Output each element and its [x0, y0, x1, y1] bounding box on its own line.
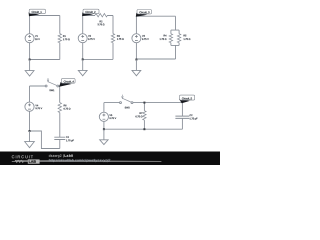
voltage source V3	[132, 34, 141, 43]
resistor R1	[58, 34, 61, 43]
ground c1	[25, 60, 34, 77]
node junction c5 R7	[143, 128, 145, 130]
voltage source V2	[78, 34, 87, 43]
label R6	[64, 105, 67, 107]
resistor R3	[111, 34, 114, 43]
label R2	[100, 21, 103, 23]
wire circuit3 right feed	[175, 16, 177, 59]
voltage source V4	[25, 102, 34, 111]
watermark bar	[0, 152, 220, 166]
capacitor C1	[54, 137, 65, 139]
label V3	[142, 35, 145, 37]
node junction c2	[82, 58, 84, 60]
node junction c3	[135, 59, 137, 61]
node junction c5 top	[143, 102, 145, 104]
flag Circuit_4	[59, 79, 75, 87]
voltage source V1	[25, 34, 34, 43]
label SW1	[49, 89, 54, 91]
wire circuit3 left	[135, 16, 137, 59]
resistor R5	[177, 34, 180, 43]
watermark title text	[49, 154, 64, 157]
ground c4	[25, 131, 35, 148]
label R3	[117, 35, 120, 37]
node junction c5 left	[103, 128, 105, 130]
label V1	[35, 35, 38, 37]
label C2	[190, 114, 193, 116]
resistor R2	[95, 14, 108, 17]
wire circuit5 right	[181, 103, 183, 130]
wire circuit2 top	[83, 15, 113, 17]
flag Circuit_2	[82, 9, 99, 16]
wire circuit5 top	[104, 102, 182, 104]
wire circuit2 bottom	[83, 58, 113, 60]
label R5	[184, 35, 187, 37]
capacitor C2	[175, 116, 189, 118]
flag Circuit_5	[179, 95, 195, 103]
ground c3	[132, 60, 141, 76]
wire circuit1 top	[30, 15, 60, 17]
watermark url text	[49, 159, 110, 162]
label C1	[66, 136, 69, 138]
wire circuit3 bottom	[136, 58, 175, 60]
node junction c1	[29, 59, 31, 61]
resistor R6	[58, 103, 61, 113]
wire circuit4 top	[30, 85, 60, 87]
wire circuit2 left	[82, 16, 84, 60]
wire circuit1 bottom	[30, 59, 60, 61]
wire circuit4 left	[29, 86, 31, 131]
switch SW2	[120, 102, 122, 104]
label R7	[140, 112, 143, 114]
wire circuit2 right	[112, 16, 114, 60]
wire circuit1 left	[29, 16, 31, 60]
ground c5	[100, 129, 108, 144]
wire circuit4 right	[59, 86, 61, 149]
node junction c4	[29, 130, 31, 132]
label R4	[164, 35, 167, 37]
label V5	[109, 114, 112, 116]
wire circuit5 bottom	[104, 128, 182, 130]
resistor R7	[143, 111, 146, 120]
label V4	[35, 105, 38, 107]
label V2	[88, 35, 91, 37]
flag Circuit_1	[29, 9, 46, 16]
resistor R4	[169, 34, 172, 43]
flag Circuit_3	[136, 10, 152, 17]
label R1	[63, 35, 66, 37]
wire circuit1 right	[59, 16, 61, 60]
wire circuit4 bottom jog	[30, 131, 60, 149]
label SW2	[125, 107, 130, 109]
CircuitLab logo	[12, 155, 162, 163]
voltage source V5	[99, 112, 108, 121]
wire circuit5 R7 branch	[143, 103, 145, 130]
switch SW1	[45, 85, 47, 87]
wire circuit3 top	[136, 15, 175, 17]
ground c2	[78, 59, 87, 75]
wire circuit5 left	[103, 103, 105, 130]
wire parallel bars	[171, 30, 179, 45]
